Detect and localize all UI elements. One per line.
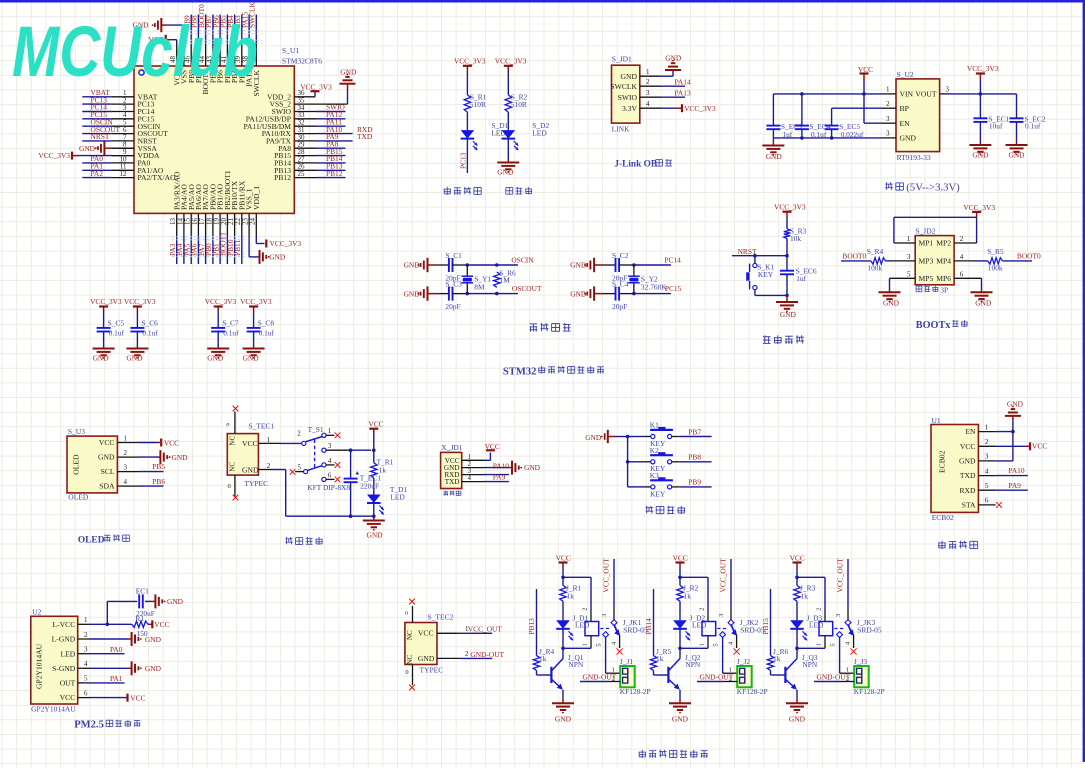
svg-text:EN: EN (900, 119, 911, 128)
svg-text:PM2.5: PM2.5 (74, 720, 104, 731)
svg-text:VCC_3V3: VCC_3V3 (967, 64, 999, 73)
svg-text:6: 6 (960, 271, 964, 279)
svg-text:0.1uf: 0.1uf (109, 329, 125, 338)
svg-text:3P: 3P (940, 286, 948, 295)
svg-text:GND: GND (145, 664, 162, 673)
svg-text:0.1uf: 0.1uf (223, 329, 239, 338)
svg-text:X_JD1: X_JD1 (441, 443, 463, 452)
svg-text:PB6: PB6 (152, 477, 165, 486)
svg-text:20pF: 20pF (612, 302, 627, 311)
svg-text:PB9: PB9 (688, 478, 701, 487)
svg-text:4: 4 (124, 478, 128, 486)
svg-text:0: 0 (228, 483, 231, 490)
svg-text:LED: LED (390, 492, 405, 501)
svg-text:KEY: KEY (650, 489, 666, 498)
svg-text:3: 3 (718, 614, 725, 617)
svg-text:TXD: TXD (445, 478, 460, 486)
svg-text:0.1uf: 0.1uf (811, 130, 827, 139)
svg-text:GND: GND (972, 150, 989, 159)
svg-text:J_J3: J_J3 (854, 657, 867, 666)
svg-text:TXD: TXD (357, 132, 373, 141)
svg-text:1: 1 (267, 436, 271, 444)
svg-text:1: 1 (886, 86, 890, 94)
svg-text:STA: STA (962, 501, 976, 510)
svg-text:2: 2 (699, 608, 706, 611)
svg-text:1: 1 (816, 643, 823, 646)
svg-text:GP2Y1014AU: GP2Y1014AU (35, 643, 44, 689)
svg-text:S_R4: S_R4 (867, 247, 884, 256)
svg-text:RXD: RXD (959, 486, 976, 495)
svg-text:SRD-05: SRD-05 (857, 625, 882, 634)
svg-text:MP5: MP5 (919, 274, 934, 283)
svg-text:LED: LED (61, 649, 76, 658)
svg-text:1: 1 (907, 235, 911, 243)
svg-text:2: 2 (816, 608, 823, 611)
svg-text:GND: GND (145, 635, 162, 644)
svg-text:KF128-2P: KF128-2P (737, 687, 768, 696)
svg-text:GND-OUT: GND-OUT (700, 673, 734, 682)
svg-text:0.022uf: 0.022uf (841, 130, 864, 139)
svg-text:VCC_3V3: VCC_3V3 (90, 297, 122, 306)
svg-text:GND: GND (524, 463, 541, 472)
svg-text:(5V-->3.3V): (5V-->3.3V) (906, 181, 960, 193)
svg-text:MP2: MP2 (936, 239, 951, 248)
svg-text:S_U1: S_U1 (282, 46, 299, 55)
svg-text:VCC: VCC (485, 442, 500, 451)
svg-text:2: 2 (465, 650, 469, 658)
svg-text:VCC_3V3: VCC_3V3 (963, 203, 995, 212)
svg-text:J_J1: J_J1 (620, 657, 633, 666)
svg-text:VCC_OUT: VCC_OUT (468, 625, 503, 634)
svg-text:S_C1: S_C1 (445, 251, 462, 260)
svg-text:GND-OUT: GND-OUT (470, 650, 504, 659)
svg-text:PC14: PC14 (664, 255, 681, 264)
svg-text:3: 3 (886, 115, 890, 123)
svg-text:S_C6: S_C6 (141, 319, 158, 328)
svg-text:1M: 1M (500, 275, 511, 284)
svg-text:PC15: PC15 (665, 284, 682, 293)
svg-text:PA2/TX/AO: PA2/TX/AO (138, 173, 177, 182)
svg-text:EC1: EC1 (136, 587, 149, 596)
svg-text:L-VCC: L-VCC (53, 620, 76, 629)
svg-text:BOOTx: BOOTx (916, 320, 951, 331)
svg-text:2: 2 (84, 631, 88, 639)
svg-text:PB13: PB13 (527, 618, 536, 635)
svg-text:PB12: PB12 (326, 169, 343, 178)
svg-text:S_JD2: S_JD2 (915, 227, 935, 236)
svg-text:OSCOUT: OSCOUT (512, 284, 542, 293)
svg-text:100k: 100k (988, 263, 1003, 272)
svg-text:220uF: 220uF (360, 481, 379, 490)
svg-text:6: 6 (328, 471, 332, 479)
svg-text:4: 4 (84, 660, 88, 668)
svg-text:PA13: PA13 (675, 88, 691, 97)
svg-text:1k: 1k (539, 654, 547, 663)
svg-text:1k: 1k (567, 592, 575, 601)
svg-text:GND: GND (1008, 150, 1025, 159)
svg-text:VCC: VCC (790, 554, 805, 563)
svg-text:4: 4 (985, 467, 989, 475)
svg-text:MP3: MP3 (919, 257, 934, 266)
svg-text:K2: K2 (650, 446, 659, 455)
svg-text:K3: K3 (650, 471, 659, 480)
svg-text:4: 4 (960, 253, 964, 261)
svg-text:KEY: KEY (758, 270, 774, 279)
svg-text:5: 5 (298, 464, 302, 472)
svg-text:SWIO: SWIO (618, 93, 638, 102)
svg-text:GND: GND (93, 354, 110, 363)
svg-text:U2: U2 (32, 608, 41, 617)
svg-text:1k: 1k (684, 592, 692, 601)
svg-text:VCC: VCC (556, 554, 571, 563)
svg-text:MP6: MP6 (936, 274, 951, 283)
svg-text:VCC: VCC (418, 629, 434, 638)
svg-text:6: 6 (985, 497, 989, 505)
svg-text:OLED: OLED (72, 454, 81, 475)
svg-text:GND: GND (243, 354, 260, 363)
svg-text:VCC_3V3: VCC_3V3 (300, 83, 332, 92)
svg-text:PB14: PB14 (644, 618, 653, 635)
svg-text:2: 2 (960, 235, 964, 243)
svg-text:GND: GND (98, 453, 115, 462)
svg-text:VCC: VCC (99, 438, 115, 447)
svg-text:1uf: 1uf (782, 130, 792, 139)
svg-text:GND: GND (766, 152, 783, 161)
svg-text:PB15: PB15 (761, 618, 770, 635)
svg-text:5: 5 (985, 482, 989, 490)
svg-text:S_C3: S_C3 (445, 280, 462, 289)
svg-text:GND: GND (555, 715, 572, 724)
svg-text:510R: 510R (470, 100, 486, 109)
svg-text:S_C7: S_C7 (222, 319, 239, 328)
svg-text:TYPEC: TYPEC (420, 665, 444, 674)
svg-text:2: 2 (646, 78, 650, 86)
svg-text:5: 5 (84, 675, 88, 683)
svg-text:2: 2 (985, 438, 989, 446)
svg-text:VOUT: VOUT (915, 90, 936, 99)
svg-text:J-Link OB: J-Link OB (614, 160, 657, 170)
svg-text:2: 2 (886, 100, 890, 108)
svg-text:VIN: VIN (900, 90, 914, 99)
svg-text:NC: NC (228, 436, 236, 446)
svg-text:VDD_1: VDD_1 (252, 186, 261, 210)
svg-text:3: 3 (907, 253, 911, 261)
svg-text:S_C2: S_C2 (612, 251, 629, 260)
svg-text:U1: U1 (932, 416, 941, 425)
svg-text:NPN: NPN (568, 660, 583, 669)
svg-text:S_R5: S_R5 (987, 247, 1004, 256)
svg-text:MP1: MP1 (919, 239, 934, 248)
svg-text:PA9: PA9 (1008, 481, 1021, 490)
svg-text:GND: GND (367, 531, 384, 540)
svg-text:GND: GND (975, 299, 992, 308)
svg-text:STM32C8T6: STM32C8T6 (282, 57, 322, 66)
svg-text:GND: GND (242, 465, 259, 474)
svg-text:4: 4 (646, 100, 650, 108)
svg-text:S_C5: S_C5 (108, 319, 125, 328)
svg-text:5: 5 (830, 643, 837, 646)
svg-text:R1: R1 (135, 614, 144, 623)
svg-text:STM32: STM32 (503, 366, 537, 377)
svg-text:BOOT0: BOOT0 (1017, 252, 1041, 261)
svg-text:BP: BP (900, 104, 909, 113)
svg-text:MCUclub: MCUclub (12, 13, 258, 92)
svg-text:S_C4: S_C4 (612, 280, 629, 289)
svg-text:OUT: OUT (60, 679, 76, 688)
svg-text:NC: NC (406, 630, 414, 640)
svg-text:1: 1 (328, 427, 332, 435)
svg-text:EN: EN (965, 427, 976, 436)
svg-text:GND: GND (585, 433, 602, 442)
svg-text:GND: GND (780, 310, 797, 319)
svg-text:NPN: NPN (685, 660, 700, 669)
svg-text:GND-OUT: GND-OUT (817, 673, 851, 682)
svg-text:KF128-2P: KF128-2P (620, 687, 651, 696)
svg-text:T_S1: T_S1 (308, 425, 324, 434)
svg-text:0.1uf: 0.1uf (1025, 122, 1041, 131)
svg-text:VCC: VCC (60, 693, 76, 702)
svg-text:S-GND: S-GND (52, 664, 76, 673)
svg-text:VCC_OUT: VCC_OUT (719, 558, 728, 593)
svg-text:GND: GND (418, 654, 435, 663)
svg-text:VCC: VCC (673, 554, 688, 563)
svg-text:2: 2 (297, 430, 301, 438)
svg-text:OSCIN: OSCIN (511, 255, 534, 264)
svg-text:GND: GND (340, 67, 357, 76)
svg-text:510R: 510R (511, 100, 527, 109)
svg-text:S_JD1: S_JD1 (612, 55, 632, 64)
svg-text:PA10: PA10 (493, 462, 509, 471)
svg-text:3: 3 (985, 453, 989, 461)
svg-text:L-GND: L-GND (52, 635, 76, 644)
svg-text:OLED: OLED (78, 535, 105, 545)
svg-text:1: 1 (646, 68, 650, 76)
svg-text:20pF: 20pF (445, 302, 460, 311)
svg-text:PB8: PB8 (688, 453, 701, 462)
svg-text:GND: GND (207, 354, 224, 363)
svg-text:LINK: LINK (612, 124, 630, 133)
svg-text:3: 3 (646, 89, 650, 97)
svg-text:5: 5 (907, 271, 911, 279)
svg-text:K1: K1 (650, 421, 659, 430)
svg-text:SCL: SCL (101, 467, 115, 476)
svg-text:S_TEC2: S_TEC2 (428, 612, 454, 621)
svg-text:ECB02: ECB02 (938, 450, 947, 473)
svg-text:1: 1 (124, 434, 128, 442)
svg-text:GND: GND (269, 253, 286, 262)
svg-text:8M: 8M (474, 282, 485, 291)
svg-text:SDA: SDA (99, 482, 115, 491)
svg-text:10k: 10k (790, 234, 801, 243)
svg-text:VCC: VCC (368, 419, 383, 428)
svg-text:GND: GND (79, 144, 96, 153)
svg-text:NC: NC (228, 462, 236, 472)
svg-text:3: 3 (946, 86, 950, 94)
svg-text:VCC_3V3: VCC_3V3 (240, 297, 272, 306)
svg-text:VCC_3V3: VCC_3V3 (38, 151, 70, 160)
svg-text:GND: GND (672, 715, 689, 724)
svg-text:GND: GND (959, 457, 976, 466)
svg-text:1k: 1k (656, 654, 664, 663)
svg-text:NC: NC (406, 654, 414, 664)
svg-text:VCC_3V3: VCC_3V3 (684, 104, 716, 113)
svg-text:3.3V: 3.3V (622, 104, 637, 113)
svg-text:GND: GND (621, 72, 638, 81)
svg-text:VCC_3V3: VCC_3V3 (495, 57, 527, 66)
svg-text:1: 1 (582, 643, 589, 646)
svg-text:GP2Y1014AU: GP2Y1014AU (31, 705, 76, 714)
svg-text:VCC_OUT: VCC_OUT (602, 558, 611, 593)
svg-text:VCC_3V3: VCC_3V3 (270, 239, 302, 248)
svg-text:VCC: VCC (130, 693, 145, 702)
svg-text:GND: GND (883, 299, 900, 308)
svg-text:3: 3 (835, 614, 842, 617)
svg-text:3: 3 (328, 442, 332, 450)
svg-text:5: 5 (713, 643, 720, 646)
svg-text:PA14: PA14 (675, 77, 691, 86)
svg-text:VCC_3V3: VCC_3V3 (774, 203, 806, 212)
svg-text:0.1uf: 0.1uf (259, 329, 275, 338)
svg-text:o: o (405, 609, 408, 616)
svg-text:1: 1 (84, 616, 88, 624)
svg-text:VCC_3V3: VCC_3V3 (454, 57, 486, 66)
svg-text:1k: 1k (801, 592, 809, 601)
svg-text:PB5: PB5 (152, 462, 165, 471)
svg-text:GND-OUT: GND-OUT (583, 673, 617, 682)
svg-text:12: 12 (120, 170, 128, 178)
svg-text:PB12: PB12 (274, 173, 291, 182)
svg-text:S_U2: S_U2 (897, 70, 914, 79)
svg-text:VCC: VCC (960, 442, 976, 451)
svg-text:GND: GND (172, 453, 189, 462)
svg-text:5: 5 (596, 643, 603, 646)
svg-text:VCC_3V3: VCC_3V3 (124, 297, 156, 306)
svg-text:GND: GND (1007, 400, 1024, 409)
svg-text:BOOT0: BOOT0 (842, 252, 866, 261)
svg-text:LED: LED (532, 129, 547, 138)
svg-text:J_J2: J_J2 (737, 657, 750, 666)
svg-text:0.1uf: 0.1uf (142, 329, 158, 338)
svg-text:o: o (226, 421, 229, 428)
svg-text:PA10: PA10 (1008, 466, 1024, 475)
svg-text:VCC: VCC (154, 620, 169, 629)
svg-text:NRST: NRST (91, 132, 110, 141)
svg-text:100k: 100k (867, 263, 882, 272)
svg-text:24: 24 (249, 217, 257, 225)
svg-text:VCC: VCC (242, 439, 258, 448)
svg-text:4: 4 (328, 457, 332, 465)
svg-text:TXD: TXD (960, 471, 976, 480)
svg-text:S_TEC1: S_TEC1 (248, 422, 274, 431)
svg-text:3: 3 (124, 463, 128, 471)
svg-text:RT9193-33: RT9193-33 (897, 153, 931, 162)
svg-text:1: 1 (699, 643, 706, 646)
svg-text:GND: GND (497, 168, 514, 177)
svg-text:3: 3 (886, 130, 890, 138)
svg-text:GND: GND (900, 134, 917, 143)
svg-text:2: 2 (267, 462, 271, 470)
svg-text:3: 3 (84, 646, 88, 654)
svg-text:GND: GND (126, 354, 143, 363)
svg-text:VCC: VCC (1032, 441, 1047, 450)
svg-text:PA9: PA9 (493, 472, 506, 481)
svg-text:2: 2 (124, 449, 128, 457)
svg-text:2: 2 (582, 608, 589, 611)
svg-text:PB7: PB7 (688, 427, 701, 436)
svg-text:SWCLK: SWCLK (610, 82, 637, 91)
svg-text:GND: GND (167, 597, 184, 606)
svg-text:S_C8: S_C8 (258, 319, 275, 328)
svg-text:10uf: 10uf (989, 122, 1003, 131)
svg-text:PA1: PA1 (110, 674, 123, 683)
svg-text:VCC_3V3: VCC_3V3 (205, 297, 237, 306)
svg-text:VCC_OUT: VCC_OUT (836, 558, 845, 593)
svg-text:1: 1 (985, 423, 989, 431)
svg-text:PA0: PA0 (110, 645, 123, 654)
svg-text:OLED: OLED (68, 492, 89, 501)
svg-text:GND: GND (665, 54, 682, 63)
svg-text:32.768K: 32.768K (641, 282, 667, 291)
svg-text:25: 25 (298, 170, 306, 178)
svg-text:1uf: 1uf (796, 274, 806, 283)
svg-text:NPN: NPN (802, 660, 817, 669)
svg-text:GND: GND (789, 715, 806, 724)
svg-text:TYPEC: TYPEC (244, 479, 268, 488)
svg-text:KF128-2P: KF128-2P (854, 687, 885, 696)
svg-text:PC13: PC13 (458, 152, 467, 169)
svg-text:PA2: PA2 (91, 169, 104, 178)
svg-text:3: 3 (601, 614, 608, 617)
svg-text:MP4: MP4 (936, 257, 951, 266)
svg-text:0: 0 (405, 669, 408, 676)
svg-text:KFT DIP-8X8: KFT DIP-8X8 (307, 483, 350, 492)
svg-text:6: 6 (84, 689, 88, 697)
svg-text:S_U3: S_U3 (68, 427, 85, 436)
svg-text:ECB02: ECB02 (932, 513, 954, 522)
svg-text:1k: 1k (773, 654, 781, 663)
svg-text:VCC: VCC (164, 438, 179, 447)
